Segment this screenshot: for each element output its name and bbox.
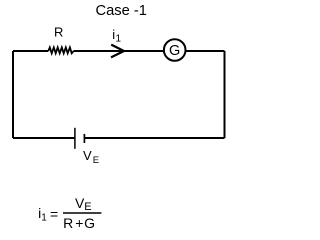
svg-text:R: R — [63, 215, 73, 231]
wire left vertical — [12, 51, 14, 138]
wire bottom-left segment — [13, 137, 75, 139]
svg-text:E: E — [93, 155, 99, 166]
wire top-mid segment — [74, 50, 165, 52]
svg-text:R: R — [54, 25, 63, 40]
svg-text:V: V — [83, 148, 92, 163]
wire top-left segment — [13, 50, 48, 52]
svg-text:1: 1 — [116, 34, 122, 45]
wire top-right segment — [185, 50, 225, 52]
svg-text:Case -1: Case -1 — [95, 3, 146, 19]
current arrow i1 — [111, 45, 124, 58]
wire right vertical — [224, 51, 226, 138]
galvanometer G circle — [164, 39, 186, 61]
svg-text:1: 1 — [41, 213, 47, 224]
equation fraction bar — [63, 212, 101, 214]
svg-text:=: = — [50, 206, 58, 222]
svg-text:E: E — [84, 201, 91, 213]
svg-text:G: G — [84, 215, 95, 231]
battery long plate — [74, 128, 76, 149]
resistor R — [48, 47, 73, 53]
wire bottom-right segment — [84, 137, 224, 139]
svg-text:+: + — [75, 215, 83, 231]
svg-text:G: G — [169, 43, 180, 59]
battery short plate — [83, 134, 85, 143]
